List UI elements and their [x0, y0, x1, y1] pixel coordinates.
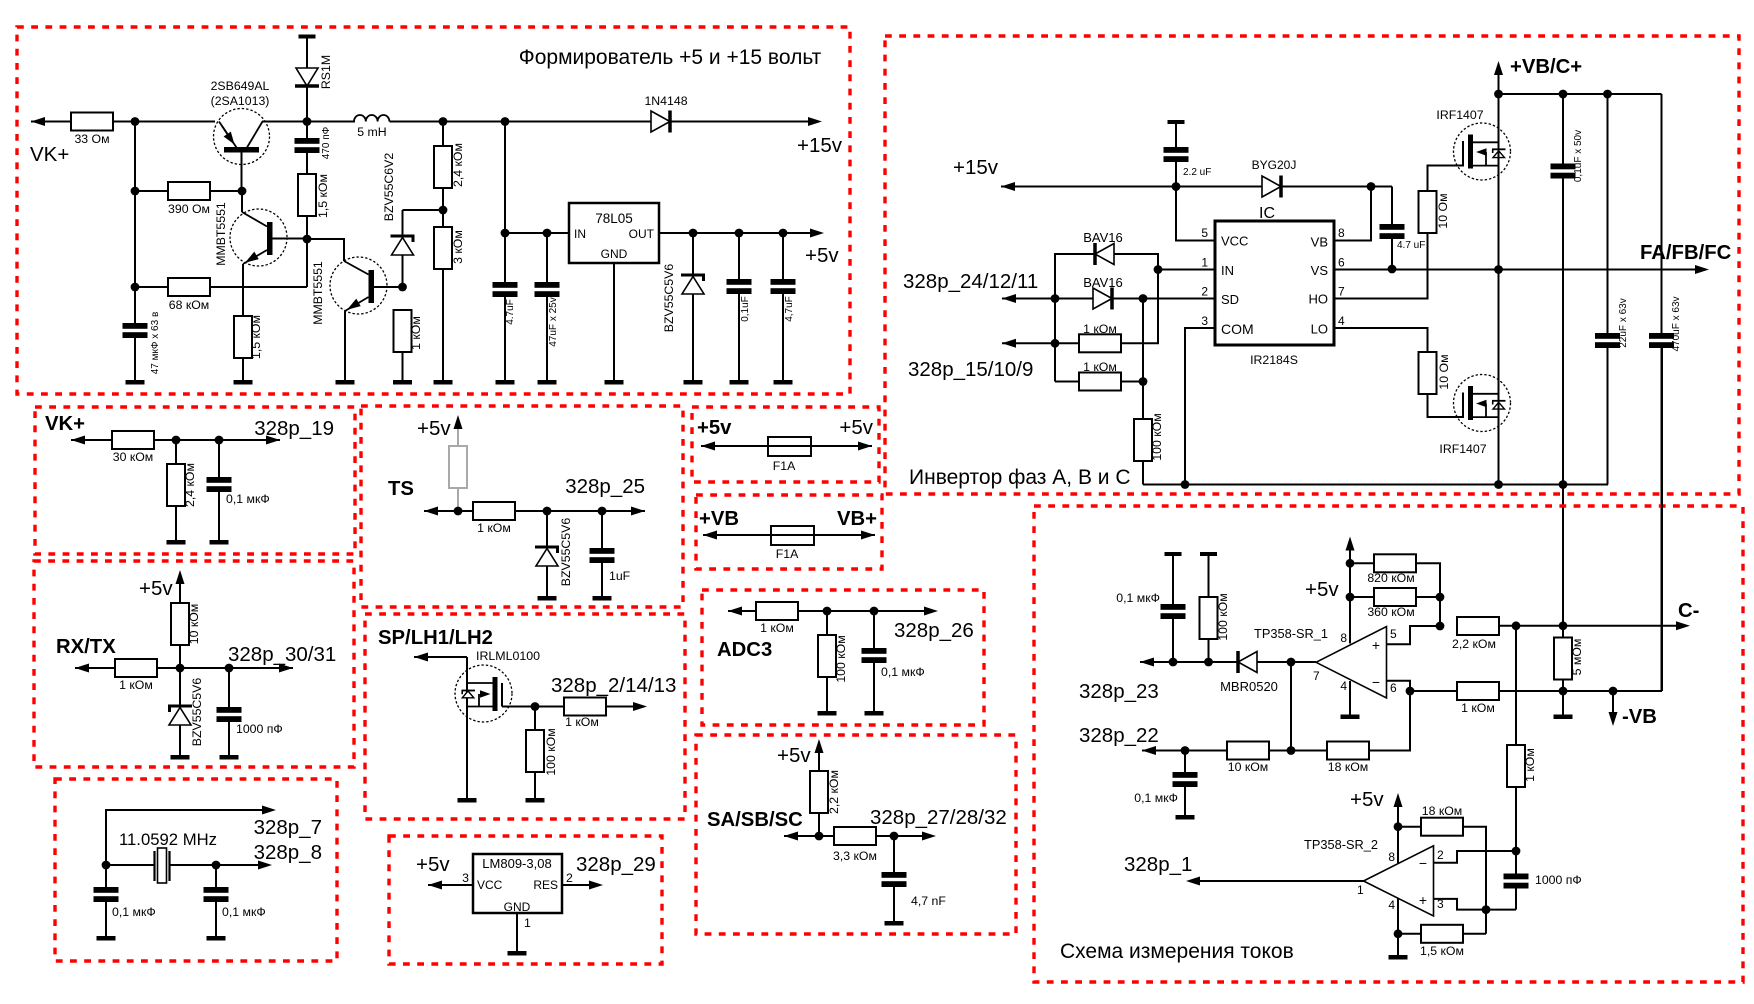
- node 68 кОм left junction: [131, 283, 140, 292]
- ground zener: [684, 380, 703, 385]
- svg-text:4: 4: [1338, 314, 1345, 328]
- wire ADC3 right arrow: [924, 607, 938, 616]
- svg-text:30 кОм: 30 кОм: [113, 450, 154, 464]
- ground xtal right: [207, 936, 226, 941]
- ground 4,7 nF: [885, 921, 904, 926]
- svg-text:F1A: F1A: [776, 547, 799, 561]
- svg-text:VCC: VCC: [477, 878, 503, 892]
- resistor 1 кОм drive upper: [1079, 270, 1158, 353]
- svg-text:4.7uF: 4.7uF: [505, 299, 516, 325]
- IC U2 LM809-3,08: [473, 854, 562, 914]
- svg-text:100 кОм: 100 кОм: [1216, 593, 1230, 640]
- transistor Q4 IRLML0100 N-MOSFET: [455, 657, 512, 798]
- net label +5v LM809: [416, 853, 450, 876]
- wire rail to RS1M junction: [262, 121, 355, 123]
- node COM rail j1: [1181, 480, 1190, 489]
- pin number 7 op1: [1313, 669, 1320, 683]
- resistor 390 Ом: [135, 182, 242, 216]
- node C- j1: [1512, 621, 1521, 630]
- node pin5 junction: [1436, 622, 1445, 631]
- wire IN line: [505, 232, 569, 234]
- wire 328p_23 line with arrow: [1140, 658, 1238, 667]
- svg-text:+5v: +5v: [777, 744, 811, 767]
- resistor 10 кОм: [1227, 742, 1327, 775]
- svg-text:328p_26: 328p_26: [894, 619, 974, 642]
- wire +15v line: [1001, 182, 1262, 191]
- capacitor 4,7uF: [771, 233, 796, 380]
- transistor Q6 IRF1407 lower: [1454, 375, 1511, 432]
- node 1,5k j left: [1394, 929, 1403, 938]
- pin number 5: [1201, 226, 1208, 240]
- wire 78L05 GND pin: [613, 263, 615, 380]
- wire zener top link: [403, 209, 444, 211]
- svg-text:78L05: 78L05: [595, 211, 633, 226]
- net label +5v TS: [417, 417, 451, 440]
- diode MBR0520: [1220, 651, 1278, 694]
- IC IR2184S body: [1215, 205, 1334, 367]
- svg-text:0,1uF: 0,1uF: [740, 296, 751, 322]
- svg-text:390 Ом: 390 Ом: [168, 202, 210, 216]
- svg-text:LO: LO: [1311, 322, 1328, 337]
- node 78L05 input drop junction: [501, 117, 510, 126]
- svg-text:IN: IN: [574, 227, 586, 241]
- ground xtal left: [97, 936, 116, 941]
- svg-text:0,1 мкФ: 0,1 мкФ: [226, 492, 270, 506]
- svg-text:TP358-SR_1: TP358-SR_1: [1254, 626, 1328, 641]
- net label 328p_24/12/11: [903, 270, 1038, 293]
- net label 328p_29: [576, 853, 656, 876]
- wire COM pin 3: [1185, 328, 1215, 485]
- pin number 4: [1338, 314, 1345, 328]
- node FA midpoint junction: [1494, 265, 1503, 274]
- resistor 2,2 кОм: [1452, 617, 1499, 651]
- net label 328p_1: [1124, 853, 1192, 876]
- node top rail j1: [1559, 90, 1568, 99]
- resistor 1 кОм drive lower: [1055, 360, 1143, 391]
- resistor 10 Ом upper: [1419, 166, 1463, 234]
- net label +5v op2: [1350, 788, 1384, 811]
- ground 3 кОм: [434, 380, 453, 385]
- svg-text:1: 1: [1357, 883, 1364, 897]
- svg-text:2: 2: [1201, 285, 1208, 299]
- svg-text:VB+: VB+: [837, 508, 877, 530]
- wire lower drain-source: [1498, 270, 1500, 485]
- svg-text:-VB: -VB: [1622, 706, 1657, 728]
- wire input drop: [504, 122, 506, 283]
- label 0,1 мкФ sense: [1116, 591, 1160, 605]
- svg-text:2: 2: [566, 871, 573, 885]
- wire TS right arrow: [631, 507, 645, 516]
- svg-text:VB: VB: [1311, 235, 1328, 250]
- svg-text:SD: SD: [1221, 292, 1239, 307]
- wire xtal line left: [106, 864, 154, 866]
- node IN line j1: [501, 229, 510, 238]
- wire SA left arrow: [784, 832, 834, 841]
- svg-text:7: 7: [1338, 285, 1345, 299]
- label 11.0592 MHz: [119, 830, 217, 849]
- svg-text:IRF1407: IRF1407: [1436, 108, 1483, 122]
- svg-text:2,4 кОм: 2,4 кОм: [183, 463, 197, 507]
- resistor 1 кОм fb: [1410, 682, 1499, 715]
- svg-text:5: 5: [1201, 226, 1208, 240]
- label MMBT5551 Q3: [311, 261, 325, 325]
- ground 47uF: [538, 380, 557, 385]
- net label SA/SB/SC: [707, 809, 803, 831]
- net label VB+: [837, 508, 877, 530]
- wire C- to 1 кОм vertical: [1515, 626, 1517, 745]
- svg-text:100 кОм: 100 кОм: [834, 635, 848, 682]
- diode BAV16 lower: [1083, 275, 1123, 310]
- svg-text:Формирователь +5 и +15 вольт: Формирователь +5 и +15 вольт: [519, 46, 822, 69]
- label IRF1407 lower: [1439, 442, 1486, 456]
- fuse F1A +5v: [701, 437, 872, 473]
- wire Q4 drain out: [502, 706, 535, 708]
- block: LM809 reset (dashed border): [389, 836, 662, 964]
- svg-text:328p_22: 328p_22: [1079, 724, 1159, 747]
- net label FA/FB/FC: [1640, 242, 1732, 264]
- svg-text:+5v: +5v: [417, 417, 451, 440]
- net label 328p_30/31: [228, 643, 336, 666]
- node C- j2: [1559, 621, 1568, 630]
- capacitor 47uF x 25v: [535, 233, 560, 380]
- label TP358-SR_2: [1304, 837, 1378, 852]
- node RS1M rail junction: [303, 117, 312, 126]
- svg-text:0,1 мкФ: 0,1 мкФ: [1116, 591, 1160, 605]
- capacitor 47 мкФ x 63 в: [123, 312, 162, 380]
- resistor 18 кОм op2: [1398, 804, 1486, 934]
- svg-text:SA/SB/SC: SA/SB/SC: [707, 809, 803, 831]
- net label 328p_26: [894, 619, 974, 642]
- svg-text:7: 7: [1313, 669, 1320, 683]
- net label RX/TX: [56, 636, 116, 658]
- svg-text:RES: RES: [533, 878, 558, 892]
- svg-text:328p_15/10/9: 328p_15/10/9: [908, 358, 1033, 381]
- svg-text:1: 1: [524, 916, 531, 930]
- op-amp U4 TP358-SR_2: [1364, 846, 1434, 916]
- svg-text:IRLML0100: IRLML0100: [476, 649, 540, 663]
- pin 3 label: [462, 871, 469, 885]
- pin number 6: [1338, 256, 1345, 270]
- node RX j2: [225, 664, 234, 673]
- net label ADC3: [717, 639, 772, 661]
- node Q3 base junction: [398, 283, 407, 292]
- node RX j1: [176, 664, 185, 673]
- node SD right junction: [1139, 294, 1148, 303]
- ground 5 мОм: [1554, 715, 1573, 720]
- pin number 4 op2: [1388, 898, 1395, 912]
- transistor Q1 2SB649AL (2SA1013) PNP: [214, 109, 270, 192]
- svg-text:1 кОм: 1 кОм: [409, 316, 423, 350]
- svg-text:328p_1: 328p_1: [1124, 853, 1192, 876]
- wire -VB arrow: [1609, 691, 1618, 726]
- wire rail after inductor: [390, 121, 652, 123]
- ground Q2 emitter: [234, 380, 253, 385]
- wire +5v op2 supply: [1394, 793, 1403, 863]
- net label +5v op1: [1305, 578, 1339, 601]
- svg-text:0,1uF x 50v: 0,1uF x 50v: [1573, 130, 1584, 182]
- svg-text:1000 пФ: 1000 пФ: [236, 722, 283, 736]
- net label +5v fuse right: [839, 416, 873, 439]
- svg-text:+5v: +5v: [1305, 578, 1339, 601]
- label MMBT5551 Q2: [214, 202, 228, 266]
- svg-text:47uF x 25v: 47uF x 25v: [548, 297, 559, 346]
- wire bootstrap cap link: [1391, 187, 1393, 225]
- capacitor 4.7 uF bootstrap: [1380, 224, 1426, 269]
- block: TS (dashed border): [361, 406, 683, 607]
- wire HO pin to gate resistor: [1334, 233, 1428, 299]
- zener BZV55C6V2: [382, 153, 415, 287]
- capacitor 470 пФ: [295, 126, 333, 174]
- node 22 j2: [1287, 746, 1296, 755]
- wire SP arrow: [414, 653, 467, 662]
- resistor 1 кОм vert: [1507, 745, 1537, 851]
- net label C-: [1678, 600, 1699, 622]
- wire op2 output: [1186, 877, 1364, 886]
- svg-text:470 пФ: 470 пФ: [321, 126, 332, 159]
- wire COM bottom rail: [1143, 484, 1608, 486]
- svg-text:4: 4: [1340, 679, 1347, 693]
- capacitor 4.7uF: [493, 282, 518, 380]
- ground 1000 пФ RX: [220, 755, 239, 760]
- svg-text:2,2 кОм: 2,2 кОм: [827, 770, 841, 814]
- node top rail j0: [1494, 90, 1503, 99]
- svg-text:2.2 uF: 2.2 uF: [1183, 167, 1211, 178]
- svg-text:0,1 мкФ: 0,1 мкФ: [222, 905, 266, 919]
- svg-text:IN: IN: [1221, 263, 1234, 278]
- resistor 1 кОм RX/TX: [115, 659, 157, 692]
- node pin2 junction: [1512, 847, 1521, 856]
- svg-text:1N4148: 1N4148: [644, 94, 687, 108]
- zener BZV55C5V6 TS: [535, 511, 573, 596]
- svg-text:Схема измерения токов: Схема измерения токов: [1060, 940, 1294, 963]
- node TS j2: [598, 507, 607, 516]
- pin number 5 op1: [1390, 627, 1397, 641]
- diode BAV16 upper: [1055, 230, 1158, 299]
- svg-text:+: +: [1419, 892, 1427, 908]
- svg-text:C-: C-: [1678, 600, 1699, 622]
- net label 328p_7: [254, 816, 322, 839]
- block: +VB fuse (dashed border): [696, 495, 882, 569]
- pin number 1 op2: [1357, 883, 1364, 897]
- svg-text:VK+: VK+: [45, 413, 85, 435]
- wire pin5 route: [1387, 626, 1441, 644]
- node 22 j1: [1181, 746, 1190, 755]
- wire RES arrow: [562, 881, 603, 890]
- wire VK+ rail with arrow: [31, 117, 71, 126]
- node IN line j2: [543, 229, 552, 238]
- node IN junction: [1154, 265, 1163, 274]
- capacitor 0,1 мкФ sense: [1161, 556, 1186, 662]
- wire VCC arrow: [428, 881, 473, 890]
- wire 68k up link: [306, 239, 308, 287]
- pin number 7: [1338, 285, 1345, 299]
- net label SP/LH1/LH2: [378, 627, 493, 649]
- op-amp U3 TP358-SR_1: [1316, 627, 1387, 699]
- ground 1 кОм: [393, 380, 412, 385]
- resistor 10 Ом lower: [1419, 352, 1463, 417]
- node pin6 junction: [1406, 687, 1415, 696]
- node 390 Ом left junction: [131, 187, 140, 196]
- svg-text:BZV55C5V6: BZV55C5V6: [190, 678, 204, 747]
- capacitor 0,1 мкФ ADC3: [862, 611, 925, 711]
- resistor 5 мОм: [1554, 626, 1584, 691]
- svg-text:+VB: +VB: [699, 508, 739, 530]
- node rail-left junction: [131, 117, 140, 126]
- svg-text:1 кОм: 1 кОм: [1461, 701, 1495, 715]
- diode RS1M with top terminal: [295, 35, 333, 139]
- svg-text:8: 8: [1388, 850, 1395, 864]
- wire +5v out line: [659, 229, 824, 238]
- ground 100 кОм SP: [526, 798, 545, 803]
- net label +5v SA: [777, 744, 811, 767]
- resistor 820 кОм: [1350, 554, 1440, 597]
- capacitor 1000 пФ: [1504, 851, 1582, 910]
- svg-text:360 кОм: 360 кОм: [1367, 605, 1414, 619]
- svg-text:TP358-SR_2: TP358-SR_2: [1304, 837, 1378, 852]
- node ADC3 j1: [823, 607, 832, 616]
- node 23 j2: [1204, 658, 1213, 667]
- label IRF1407 upper: [1436, 108, 1483, 122]
- svg-text:3: 3: [1201, 314, 1208, 328]
- net label 328p_15/10/9: [908, 358, 1033, 381]
- ground Q4 source: [458, 798, 477, 803]
- resistor 10 кОм pullup: [171, 603, 201, 668]
- wire TS mid: [515, 510, 645, 512]
- svg-text:FA/FB/FC: FA/FB/FC: [1640, 242, 1732, 264]
- svg-text:Инвертор фаз А, В и С: Инвертор фаз А, В и С: [909, 466, 1131, 489]
- svg-text:LM809-3,08: LM809-3,08: [482, 856, 551, 871]
- svg-text:100 кОм: 100 кОм: [544, 728, 558, 775]
- crystal 11.0592 MHz: [155, 848, 170, 883]
- wire SA right arrow: [922, 832, 936, 841]
- node 1k row2 junction: [1139, 377, 1148, 386]
- svg-text:18 кОм: 18 кОм: [1328, 760, 1369, 774]
- node Q1 base junction: [238, 187, 247, 196]
- node 18k j left: [1394, 822, 1403, 831]
- node xtal j2: [212, 861, 221, 870]
- ground LM809: [508, 951, 527, 956]
- pin number 6 op1: [1390, 681, 1397, 695]
- title Инвертор фаз А, В и С: [909, 466, 1131, 489]
- wire +VB/C+ feed: [1494, 61, 1503, 270]
- svg-text:470uF x 63v: 470uF x 63v: [1671, 296, 1682, 351]
- resistor 2,2 кОм SA: [810, 770, 841, 836]
- svg-text:SP/LH1/LH2: SP/LH1/LH2: [378, 627, 493, 649]
- node pin3 junction: [1482, 905, 1491, 914]
- resistor 1 кОм Q3 base: [394, 310, 424, 380]
- terminal 0,1 мкФ top: [1165, 552, 1182, 556]
- resistor pullup TS (gray): [449, 446, 467, 511]
- wire 328p_22 line with arrow: [1142, 746, 1227, 755]
- svg-text:+5v: +5v: [139, 577, 173, 600]
- svg-text:328p_23: 328p_23: [1079, 680, 1159, 703]
- net label 328p_23: [1079, 680, 1159, 703]
- pin number 2 op2: [1437, 848, 1444, 862]
- capacitor 0,1uF x 50v: [1551, 94, 1585, 485]
- wire ADC3 left arrow: [728, 607, 756, 616]
- node bottom rail j1: [1559, 480, 1568, 489]
- net label 328p_25: [565, 475, 645, 498]
- svg-text:11.0592 MHz: 11.0592 MHz: [119, 830, 217, 849]
- ground zener TS: [538, 596, 557, 601]
- wire C- line: [1499, 621, 1690, 630]
- resistor 18 кОм op1: [1327, 691, 1410, 774]
- node 23 j1: [1169, 658, 1178, 667]
- svg-text:1 кОм: 1 кОм: [760, 621, 794, 635]
- svg-text:1 кОм: 1 кОм: [565, 715, 599, 729]
- ground 1uF TS: [593, 596, 612, 601]
- capacitor 0,1 мкФ divider: [207, 440, 270, 540]
- label IRLML0100: [476, 649, 540, 663]
- svg-text:1,5 кОм: 1,5 кОм: [1420, 944, 1464, 958]
- resistor 3,3 кОм SA: [833, 827, 877, 863]
- svg-text:BAV16: BAV16: [1083, 230, 1123, 245]
- svg-text:8: 8: [1338, 226, 1345, 240]
- pin 1 label: [524, 916, 531, 930]
- net label +15v inverter: [953, 156, 999, 179]
- node 2.2uF junction: [1172, 182, 1181, 191]
- svg-text:3,3 кОм: 3,3 кОм: [833, 849, 877, 863]
- wire IN pin 1: [1158, 269, 1215, 271]
- resistor 1 кОм SP: [535, 698, 633, 730]
- node zener5V6 junction: [689, 229, 698, 238]
- ground Q3 emitter: [336, 380, 355, 385]
- svg-text:47 мкФ x 63 в: 47 мкФ x 63 в: [150, 312, 161, 375]
- wire pin6 route: [1387, 681, 1411, 691]
- zener BZV55C5V6 RX: [168, 668, 204, 755]
- wire +15v out with arrow: [670, 117, 822, 126]
- node xtal j1: [102, 861, 111, 870]
- svg-text:BZV55C5V6: BZV55C5V6: [559, 518, 573, 587]
- net label TS: [388, 478, 414, 500]
- wire VK+ line left arrow: [71, 436, 112, 445]
- node Q4 out junction: [531, 702, 540, 711]
- node 820 j left: [1346, 559, 1355, 568]
- wire fb bottom line: [1499, 690, 1662, 692]
- wire fb vertical link: [1439, 597, 1441, 626]
- capacitor 1uF TS: [590, 511, 631, 596]
- net label +5v RX/TX: [139, 577, 173, 600]
- resistor 100 кОм pulldown: [1134, 413, 1164, 484]
- svg-text:1uF: 1uF: [609, 569, 631, 583]
- capacitor 22uF x 63v: [1595, 94, 1629, 485]
- wire SA mid: [876, 835, 922, 837]
- wire +5v pullup arrow: [176, 570, 185, 603]
- svg-text:VS: VS: [1311, 263, 1329, 278]
- net label 328p_19: [254, 417, 334, 440]
- svg-text:2SB649AL: 2SB649AL: [211, 79, 270, 93]
- svg-text:BZV55C5V6: BZV55C5V6: [662, 264, 676, 333]
- svg-text:5: 5: [1390, 627, 1397, 641]
- resistor 68 кОм: [135, 278, 307, 312]
- node VS junction at cap: [1388, 265, 1397, 274]
- wire 5 мОм ground stub: [1562, 691, 1564, 715]
- svg-text:328p_25: 328p_25: [565, 475, 645, 498]
- svg-text:2: 2: [1437, 848, 1444, 862]
- wire ADC3 mid: [798, 610, 924, 612]
- svg-text:22uF x 63v: 22uF x 63v: [1618, 298, 1629, 347]
- transistor Q2 MMBT5551 NPN: [230, 191, 307, 316]
- ground for 47 мкФ: [126, 380, 145, 385]
- wire RX/TX mid: [157, 667, 293, 669]
- svg-text:+5v: +5v: [839, 416, 873, 439]
- svg-text:BAV16: BAV16: [1083, 275, 1123, 290]
- wire VS / FA line: [1334, 265, 1709, 274]
- svg-text:TS: TS: [388, 478, 414, 500]
- wire RX/TX line left arrow: [75, 664, 115, 673]
- net label +15v: [797, 134, 843, 157]
- resistor 100 кОм sense: [1200, 556, 1231, 662]
